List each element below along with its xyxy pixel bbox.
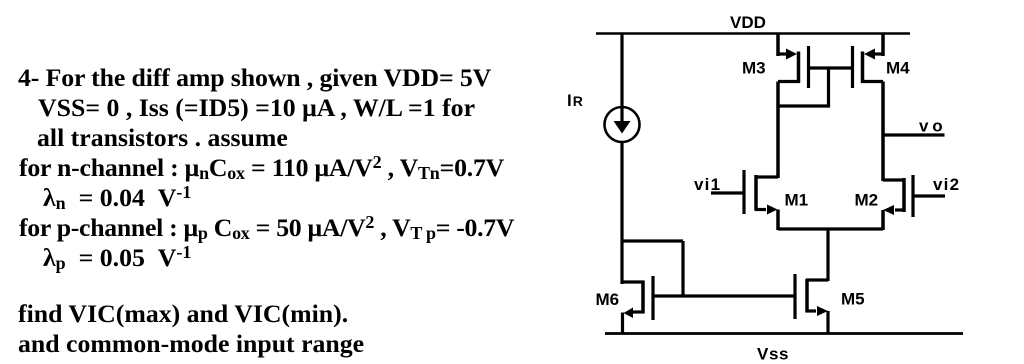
wire: M5 drain to diff pair tail bbox=[826, 229, 829, 281]
wire: M6 diode connection loop bbox=[622, 241, 683, 297]
transistor M3 bbox=[778, 33, 809, 178]
transistor M5 bbox=[795, 274, 828, 333]
VDD rail bbox=[596, 32, 910, 35]
wire: vo output stub bbox=[883, 133, 945, 136]
svg-text:M2: M2 bbox=[855, 191, 879, 210]
wire: IR branch from VDD rail to current source bbox=[620, 33, 623, 107]
transistor M2 bbox=[883, 175, 913, 230]
svg-text:vi2: vi2 bbox=[933, 175, 960, 194]
svg-text:vi1: vi1 bbox=[694, 175, 721, 194]
problem statement text bbox=[18, 63, 491, 93]
svg-text:Vss: Vss bbox=[757, 345, 789, 364]
svg-text:VDD: VDD bbox=[730, 13, 766, 32]
svg-text:M4: M4 bbox=[886, 59, 910, 78]
wire: diff pair tail node bbox=[778, 227, 883, 230]
transistor M6 bbox=[622, 276, 653, 333]
Vss rail bbox=[605, 332, 963, 335]
svg-text:M1: M1 bbox=[785, 191, 809, 210]
wire: vi1 gate lead bbox=[711, 191, 744, 194]
current source IR bbox=[605, 107, 640, 142]
svg-text:M3: M3 bbox=[742, 59, 766, 78]
svg-text:M6: M6 bbox=[596, 290, 620, 309]
wire: M3 diode connection bbox=[778, 68, 830, 107]
transistor M1 bbox=[744, 170, 778, 230]
wire: gate line M3 to M4 bbox=[809, 66, 853, 69]
wire: gate line M6 to M5 bbox=[653, 294, 795, 297]
svg-text:vo: vo bbox=[919, 117, 946, 136]
svg-text:IR: IR bbox=[567, 91, 583, 110]
svg-text:M5: M5 bbox=[841, 290, 865, 309]
wire: vi2 gate lead bbox=[913, 194, 945, 197]
wire: current source to M6 drain node bbox=[620, 142, 623, 284]
transistor M4 bbox=[853, 33, 884, 181]
